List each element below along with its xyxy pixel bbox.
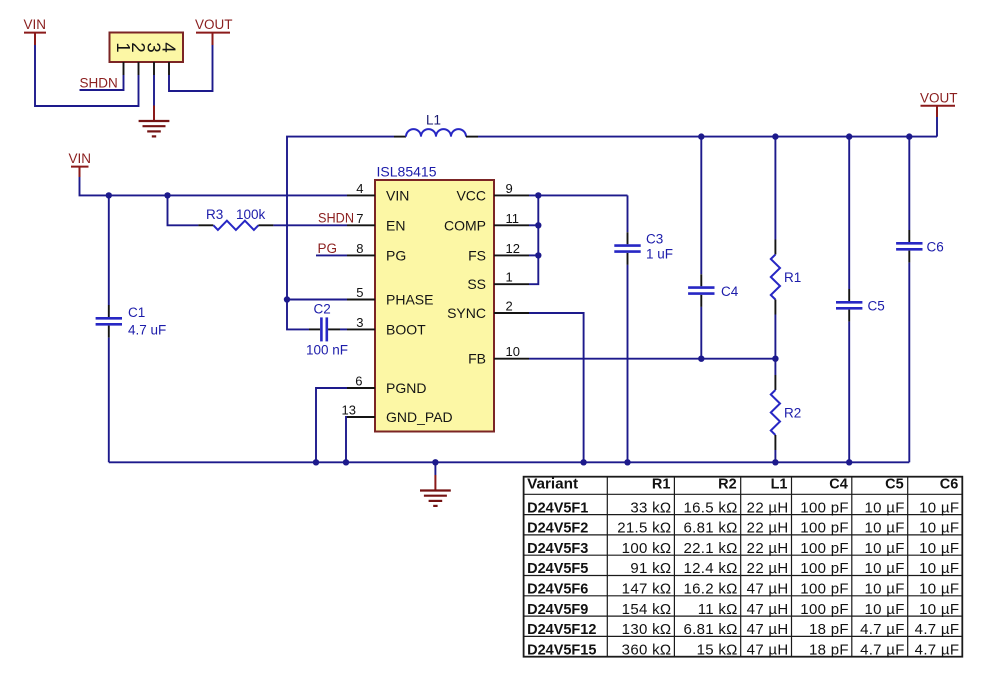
wire GND_PAD to ground bus [346, 417, 347, 462]
capacitor C3 [614, 195, 673, 462]
svg-text:C5: C5 [885, 477, 904, 493]
wire FS to tie [529, 254, 538, 256]
svg-text:BOOT: BOOT [386, 321, 426, 337]
IC right pin numbers [506, 181, 520, 359]
svg-text:18 pF: 18 pF [809, 621, 849, 638]
svg-text:PG: PG [318, 241, 338, 256]
ground symbol (main) [420, 462, 451, 506]
svg-text:D24V5F2: D24V5F2 [527, 521, 588, 537]
svg-text:13: 13 [342, 403, 356, 418]
wire SHDN to pin 1 [80, 75, 124, 90]
node C1/VIN junction [106, 192, 112, 198]
svg-text:47 µH: 47 µH [747, 581, 789, 598]
svg-text:C2: C2 [314, 302, 331, 317]
svg-text:FB: FB [468, 351, 486, 367]
svg-text:100 pF: 100 pF [800, 601, 849, 618]
svg-text:100 pF: 100 pF [800, 540, 849, 557]
svg-text:1: 1 [506, 270, 513, 285]
node C4/FB [698, 356, 704, 362]
IC left pin numbers [342, 181, 364, 418]
svg-text:100 nF: 100 nF [306, 343, 348, 358]
svg-text:GND_PAD: GND_PAD [386, 409, 453, 425]
variant table [524, 477, 963, 659]
svg-text:D24V5F15: D24V5F15 [527, 642, 596, 658]
IC right pin stubs [494, 195, 529, 358]
wire COMP to tie [529, 224, 538, 226]
wire R3 to IC pin EN [273, 224, 347, 226]
svg-text:PGND: PGND [386, 380, 426, 396]
svg-text:C5: C5 [868, 299, 885, 314]
svg-text:22 µH: 22 µH [747, 499, 789, 516]
svg-text:100 kΩ: 100 kΩ [622, 540, 672, 557]
svg-text:SS: SS [467, 276, 486, 292]
svg-text:100k: 100k [236, 207, 266, 222]
svg-text:11: 11 [506, 211, 520, 226]
svg-text:R3: R3 [206, 207, 223, 222]
wire C2 to BOOT pin [340, 328, 347, 330]
svg-text:47 µH: 47 µH [747, 601, 789, 618]
svg-text:22 µH: 22 µH [747, 560, 789, 577]
IC right pin labels [444, 187, 486, 366]
capacitor C5 [836, 137, 885, 463]
capacitor C2 [306, 302, 348, 358]
supply label VIN (connector) [24, 17, 47, 45]
wire PGND to ground bus [316, 388, 347, 462]
svg-text:C6: C6 [940, 477, 959, 493]
svg-text:12: 12 [506, 241, 520, 256]
svg-text:10 µF: 10 µF [865, 560, 905, 577]
svg-text:154 kΩ: 154 kΩ [622, 601, 672, 618]
svg-text:10 µF: 10 µF [865, 499, 905, 516]
svg-text:R1: R1 [652, 477, 671, 493]
svg-text:9: 9 [506, 181, 513, 196]
svg-text:47 µH: 47 µH [747, 641, 789, 658]
svg-text:4.7 µF: 4.7 µF [860, 641, 905, 658]
wire PG stub [316, 254, 347, 256]
svg-text:22 µH: 22 µH [747, 540, 789, 557]
ground bus wire [109, 461, 910, 463]
svg-text:6.81 kΩ: 6.81 kΩ [684, 621, 738, 638]
svg-text:5: 5 [356, 285, 363, 300]
svg-text:C6: C6 [927, 240, 944, 255]
svg-text:1 uF: 1 uF [646, 247, 673, 262]
ground (connector pin 3) [139, 75, 170, 136]
svg-text:VIN: VIN [386, 187, 409, 203]
svg-text:R2: R2 [718, 477, 737, 493]
svg-text:C4: C4 [721, 284, 739, 299]
svg-text:100 pF: 100 pF [800, 560, 849, 577]
svg-text:D24V5F3: D24V5F3 [527, 541, 588, 557]
supply label VOUT (connector) [195, 17, 233, 45]
svg-text:21.5 kΩ: 21.5 kΩ [617, 520, 671, 537]
svg-text:10 µF: 10 µF [865, 520, 905, 537]
svg-text:47 µH: 47 µH [747, 621, 789, 638]
ground bus node x=435.4 [432, 459, 438, 465]
svg-text:FS: FS [468, 247, 486, 263]
svg-text:6: 6 [355, 374, 362, 389]
svg-text:10 µF: 10 µF [919, 499, 959, 516]
wire VIN to connector pin 2 [35, 45, 139, 106]
svg-text:Variant: Variant [527, 477, 578, 493]
svg-text:D24V5F1: D24V5F1 [527, 500, 588, 516]
supply label VOUT (main) [920, 91, 958, 137]
capacitor C6 [896, 137, 944, 463]
resistor R3 [198, 207, 273, 230]
node VCC tie [535, 192, 541, 198]
wire SYNC down to ground bus [529, 313, 584, 462]
svg-text:C1: C1 [128, 305, 145, 320]
svg-text:VIN: VIN [24, 17, 47, 32]
resistor R2 [771, 359, 801, 463]
wire VCC/COMP/FS/SS tie [529, 195, 538, 284]
svg-text:PHASE: PHASE [386, 292, 433, 308]
capacitor C1 [96, 195, 167, 462]
ground bus node x=775.4 [772, 459, 778, 465]
svg-text:VOUT: VOUT [195, 17, 233, 32]
svg-text:6.81 kΩ: 6.81 kΩ [684, 520, 738, 537]
svg-text:4.7 µF: 4.7 µF [860, 621, 905, 638]
svg-text:4.7 µF: 4.7 µF [915, 621, 960, 638]
svg-text:4.7 uF: 4.7 uF [128, 322, 166, 337]
node R3/VIN junction [164, 192, 170, 198]
connector pin stubs [124, 62, 170, 75]
wire FB to divider [529, 358, 775, 360]
svg-text:10: 10 [506, 344, 520, 359]
svg-text:10 µF: 10 µF [865, 540, 905, 557]
svg-text:R1: R1 [784, 270, 801, 285]
wire R3 branch down [168, 195, 199, 225]
svg-text:12.4 kΩ: 12.4 kΩ [684, 560, 738, 577]
svg-text:L1: L1 [771, 477, 788, 493]
inductor L1 [394, 113, 478, 137]
svg-text:10 µF: 10 µF [865, 601, 905, 618]
svg-text:147 kΩ: 147 kΩ [622, 581, 672, 598]
svg-text:COMP: COMP [444, 217, 486, 233]
svg-text:L1: L1 [426, 113, 441, 128]
svg-text:SHDN: SHDN [318, 211, 354, 226]
svg-text:D24V5F9: D24V5F9 [527, 602, 588, 618]
node R1/R2/FB [772, 356, 778, 362]
wire L1 rail left segment [287, 137, 394, 300]
supply label VIN (main) [69, 151, 92, 177]
svg-text:10 µF: 10 µF [919, 581, 959, 598]
IC U1 ISL85415 [375, 164, 494, 432]
node PHASE junction [284, 296, 290, 302]
svg-text:15 kΩ: 15 kΩ [697, 641, 738, 658]
svg-text:10 µF: 10 µF [919, 540, 959, 557]
node C4/rail [698, 133, 704, 139]
svg-text:7: 7 [356, 211, 363, 226]
svg-text:130 kΩ: 130 kΩ [622, 621, 672, 638]
svg-text:D24V5F6: D24V5F6 [527, 582, 588, 598]
connector J1 [110, 33, 184, 63]
ground bus node x=627.5 [624, 459, 630, 465]
svg-text:22 µH: 22 µH [747, 520, 789, 537]
svg-text:360 kΩ: 360 kΩ [622, 641, 672, 658]
svg-text:16.2 kΩ: 16.2 kΩ [684, 581, 738, 598]
IC left pin stubs [347, 195, 375, 417]
ground bus node x=849.2 [846, 459, 852, 465]
svg-text:3: 3 [356, 315, 363, 330]
svg-text:VCC: VCC [456, 187, 486, 203]
svg-text:33 kΩ: 33 kΩ [630, 499, 671, 516]
svg-text:C3: C3 [646, 232, 663, 247]
svg-text:16.5 kΩ: 16.5 kΩ [684, 499, 738, 516]
wire VIN rail to IC pin VIN [80, 177, 348, 195]
resistor R1 [771, 137, 801, 359]
svg-text:100 pF: 100 pF [800, 520, 849, 537]
svg-text:2: 2 [506, 299, 513, 314]
wire L1 to VOUT rail [478, 136, 937, 138]
svg-text:ISL85415: ISL85415 [377, 164, 437, 180]
svg-text:91 kΩ: 91 kΩ [630, 560, 671, 577]
svg-text:10 µF: 10 µF [865, 581, 905, 598]
node COMP tie [535, 222, 541, 228]
svg-text:8: 8 [356, 241, 363, 256]
ground bus node x=583.6 [580, 459, 586, 465]
svg-text:VOUT: VOUT [920, 91, 958, 106]
svg-text:R2: R2 [784, 406, 801, 421]
svg-text:SYNC: SYNC [447, 305, 486, 321]
capacitor C4 [688, 137, 739, 359]
svg-text:18 pF: 18 pF [809, 641, 849, 658]
svg-text:100 pF: 100 pF [800, 581, 849, 598]
node C5/rail [846, 133, 852, 139]
IC left pin labels [386, 187, 453, 425]
node C6/rail [906, 133, 912, 139]
svg-text:4: 4 [356, 181, 363, 196]
ground bus node x=316 [313, 459, 319, 465]
node FS tie [535, 252, 541, 258]
svg-text:22.1 kΩ: 22.1 kΩ [684, 540, 738, 557]
svg-text:SHDN: SHDN [80, 76, 118, 91]
svg-text:D24V5F5: D24V5F5 [527, 561, 588, 577]
svg-text:4.7 µF: 4.7 µF [915, 641, 960, 658]
wire PHASE to L1 rail [287, 299, 347, 301]
wire VCC to C3 [529, 194, 628, 196]
svg-text:10 µF: 10 µF [919, 520, 959, 537]
svg-text:PG: PG [386, 247, 406, 263]
svg-text:EN: EN [386, 217, 405, 233]
svg-text:10 µF: 10 µF [919, 601, 959, 618]
svg-text:D24V5F12: D24V5F12 [527, 622, 596, 638]
svg-text:100 pF: 100 pF [800, 499, 849, 516]
ground bus node x=346 [343, 459, 349, 465]
wire pin 4 to VOUT [169, 45, 213, 91]
svg-text:10 µF: 10 µF [919, 560, 959, 577]
svg-text:VIN: VIN [69, 151, 92, 166]
svg-text:4: 4 [158, 42, 179, 52]
node R1/rail [772, 133, 778, 139]
wire PHASE down to BOOT branch [287, 300, 309, 330]
svg-text:11 kΩ: 11 kΩ [698, 601, 738, 618]
svg-text:C4: C4 [829, 477, 848, 493]
